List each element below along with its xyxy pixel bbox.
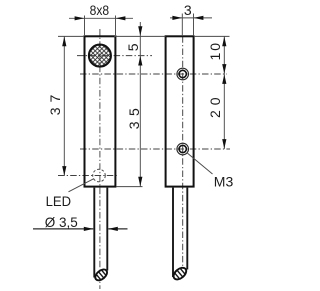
node: LED centerline y=175.5 (58, 175, 118, 177)
svg-text:10: 10 (207, 43, 223, 61)
sensor body (side view) (166, 36, 194, 186)
label M3 with leader (187, 153, 213, 174)
cable end ellipse (front view) (93, 267, 110, 283)
wire: vertical centerline of right view (182, 36, 184, 272)
cable (side view) (172, 188, 174, 277)
dimension 5 and 35 (between views) (114, 22, 166, 187)
svg-text:8x8: 8x8 (90, 2, 110, 18)
svg-text:LED: LED (46, 193, 72, 209)
dimension cable diameter (33, 228, 128, 230)
svg-text:Ø 3,5: Ø 3,5 (45, 214, 78, 230)
hole M3 upper (177, 68, 189, 80)
svg-text:3: 3 (184, 2, 192, 18)
dimension 3 (top of right view) (170, 14, 212, 37)
cable end ellipse (side view) (171, 265, 189, 283)
node: horizontal centerline through sensing circle y=55.6 (77, 55, 152, 57)
svg-text:M3: M3 (214, 173, 234, 189)
LED indicator (dashed circle) (93, 169, 106, 182)
node: hole-1 centerline y=74 (80, 73, 227, 75)
wire: vertical centerline of left view (99, 29, 101, 289)
dimension 8x8 (top of left view) (69, 16, 133, 36)
sensing face circle with crosshatch (89, 45, 111, 67)
sensor body (front view) (85, 36, 116, 186)
svg-text:5: 5 (125, 43, 141, 51)
label LED with leader (69, 179, 95, 192)
node: hole-2 centerline y=149 (80, 148, 230, 150)
cable (front view) (93, 188, 95, 278)
hole M3 lower (177, 143, 189, 155)
dimension 37 (left side) (58, 36, 84, 176)
dimension 10 and 20 (right side) (194, 36, 230, 149)
